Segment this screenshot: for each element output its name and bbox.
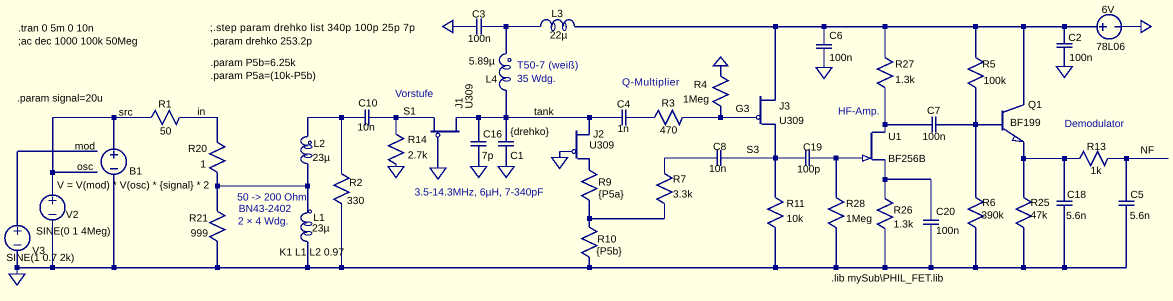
capacitor C18 [1056, 159, 1086, 268]
svg-text:R27: R27 [895, 60, 914, 71]
svg-text:999: 999 [191, 229, 209, 240]
svg-text:470: 470 [660, 126, 678, 137]
net label osc [77, 162, 93, 173]
svg-text:100n: 100n [1069, 53, 1092, 64]
svg-text:390k: 390k [981, 211, 1004, 222]
svg-text:23µ: 23µ [313, 153, 331, 164]
svg-text:1: 1 [200, 160, 206, 171]
inductor L4 [469, 27, 511, 118]
wire gnd to C3 [453, 26, 477, 28]
svg-text:S3: S3 [746, 145, 759, 156]
node B1 bottom junction [111, 265, 116, 270]
svg-text:Demodulator: Demodulator [1065, 119, 1125, 130]
node osc junction [50, 170, 55, 175]
svg-text:L4: L4 [486, 75, 498, 86]
wire V2 bottom [52, 220, 54, 268]
svg-text:Q1: Q1 [1028, 100, 1042, 111]
value V3 [6, 253, 74, 264]
wire mod [17, 151, 97, 225]
node C20 bottom junction [929, 265, 934, 270]
svg-text:src: src [119, 108, 133, 119]
node R9 bottom junction [587, 216, 592, 221]
node C1/L4 junction [504, 115, 509, 120]
wire B1 top [113, 118, 115, 150]
svg-text:2.7k: 2.7k [408, 151, 428, 162]
wire top rail [575, 26, 1098, 28]
capacitor C3 [468, 10, 491, 46]
svg-text:K1 L1 L2 0.97: K1 L1 L2 0.97 [279, 248, 344, 259]
directive .tran [18, 24, 94, 35]
wire R3 to G3 [682, 117, 756, 119]
wire R7 top to C8 [665, 157, 718, 159]
node R28 bottom junction [834, 265, 839, 270]
svg-text:R25: R25 [1031, 198, 1050, 209]
node C2 top junction [1062, 24, 1067, 29]
wire bottom rail [17, 267, 1126, 269]
svg-text:C5: C5 [1130, 190, 1144, 201]
svg-text:C1: C1 [510, 151, 524, 162]
resistor R6 [968, 125, 1004, 268]
svg-text:U309: U309 [464, 83, 475, 108]
capacitor C10 [357, 99, 377, 134]
inductor L3 [541, 9, 575, 42]
svg-text:S1: S1 [403, 107, 416, 118]
svg-text:R5: R5 [982, 60, 996, 71]
svg-text:3.3k: 3.3k [673, 190, 693, 201]
svg-text:SINE(0 1 4Meg): SINE(0 1 4Meg) [36, 227, 111, 238]
node R28 top junction [834, 156, 839, 161]
directive .param P5a [210, 71, 315, 82]
svg-text:C2: C2 [1068, 33, 1082, 44]
svg-text:in: in [197, 107, 205, 118]
resistor R26 [878, 179, 914, 267]
source 6V supply [1096, 5, 1125, 53]
svg-text:R6: R6 [982, 198, 996, 209]
net label G3 [736, 104, 750, 115]
directive K1 [279, 248, 344, 259]
svg-text:47k: 47k [1031, 211, 1049, 222]
transistor J1 [431, 83, 476, 168]
wire tank to C4 [589, 117, 622, 119]
wire osc riser [52, 118, 54, 173]
svg-text:.lib mySub\PHIL_FET.lib: .lib mySub\PHIL_FET.lib [831, 274, 943, 285]
node V3 bottom junction [15, 265, 20, 270]
node R10 bottom junction [587, 265, 592, 270]
svg-text:R11: R11 [787, 199, 806, 210]
svg-text:5.89µ: 5.89µ [469, 57, 495, 68]
node S3 junction [773, 156, 778, 161]
svg-text:78L06: 78L06 [1096, 42, 1125, 53]
svg-text:C4: C4 [617, 99, 631, 110]
wire J1 drain to C16 [456, 117, 589, 119]
svg-text:BF199: BF199 [1010, 118, 1041, 129]
resistor R20 [188, 142, 225, 186]
value B1 [57, 181, 209, 192]
svg-text:L2: L2 [314, 139, 326, 150]
transistor U1 [862, 125, 925, 180]
svg-text:100p: 100p [797, 165, 820, 176]
svg-text:L1: L1 [313, 213, 325, 224]
directive ;.step [210, 23, 415, 34]
wire osc [53, 171, 98, 173]
svg-text:Q-Multiplier: Q-Multiplier [622, 78, 680, 89]
ground flag up (R4) [714, 57, 728, 66]
node R2 top junction [339, 115, 344, 120]
svg-text:1.3k: 1.3k [895, 75, 915, 86]
resistor R5 [968, 27, 1007, 125]
wire S3 to C19 [775, 157, 805, 159]
net label tank [534, 107, 554, 118]
capacitor C16 [471, 118, 503, 167]
svg-text:100n: 100n [922, 132, 945, 143]
node U1 drain junction [883, 122, 888, 127]
ground flag right (6V) [1141, 21, 1151, 33]
ground flag C16 [471, 167, 487, 178]
capacitor C2 [1056, 27, 1092, 67]
directive ;ac [18, 37, 138, 48]
svg-text:HF-Amp.: HF-Amp. [838, 107, 880, 118]
ground flag bottom-left [9, 268, 25, 286]
node R2 bottom junction [339, 265, 344, 270]
svg-text:C16: C16 [483, 130, 502, 141]
wire R13 to NF [1108, 158, 1169, 160]
node C16 junction [476, 115, 481, 120]
svg-text:C8: C8 [713, 142, 727, 153]
wire src rail [53, 117, 151, 119]
node L1 bottom junction [305, 265, 310, 270]
node G3 junction [718, 115, 723, 120]
net label mod [75, 141, 95, 152]
node Q1 emitter junction [1021, 156, 1026, 161]
net label S1 [403, 107, 416, 118]
wire tap to transformer [217, 185, 307, 187]
wire C4 to R3 [626, 117, 655, 119]
net label S3 [746, 145, 759, 156]
svg-text:{drehko}: {drehko} [510, 127, 549, 138]
svg-text:Vorstufe: Vorstufe [395, 89, 433, 100]
directive .lib [831, 274, 943, 285]
svg-text:10n: 10n [357, 123, 375, 134]
ground flag left (C3) [443, 21, 453, 33]
capacitor C8 [709, 142, 727, 175]
svg-text:R14: R14 [408, 135, 427, 146]
svg-text:3.5-14.3MHz, 6µH, 7-340pF: 3.5-14.3MHz, 6µH, 7-340pF [415, 188, 544, 199]
node transformer tap junction [305, 184, 310, 189]
inductor L1 [301, 210, 330, 242]
capacitor C6 [816, 27, 853, 68]
svg-text:V = V(mod) * V(osc) * {signal}: V = V(mod) * V(osc) * {signal} * 2 [57, 181, 209, 192]
ground flag R14 [388, 167, 404, 178]
svg-text:1k: 1k [1091, 166, 1103, 177]
directive .param drehko [210, 36, 312, 47]
node R5 top junction [973, 24, 978, 29]
svg-text:SINE(1 0.7 2k): SINE(1 0.7 2k) [6, 253, 74, 264]
comment BN43-2402 [239, 204, 292, 215]
svg-text:G3: G3 [736, 104, 750, 115]
transistor Q1 [1002, 27, 1042, 159]
wire in row segment [308, 117, 366, 119]
capacitor C7 [922, 106, 945, 143]
node C6 top junction [822, 24, 827, 29]
svg-text:mod: mod [75, 141, 95, 152]
ground flag C6 [816, 68, 832, 79]
svg-text:R13: R13 [1087, 142, 1106, 153]
comment 35 Wdg [517, 74, 556, 85]
svg-text:C18: C18 [1067, 190, 1086, 201]
svg-text:100n: 100n [829, 53, 852, 64]
comment tuning range [415, 188, 544, 199]
svg-text:C20: C20 [936, 207, 955, 218]
node R26 bottom junction [883, 265, 888, 270]
wire L2 top [307, 118, 309, 137]
resistor R9 [582, 170, 624, 219]
svg-text:U309: U309 [589, 141, 614, 152]
capacitor C4 [617, 99, 631, 135]
svg-text:23µ: 23µ [312, 224, 330, 235]
svg-text:NF: NF [1140, 146, 1154, 157]
wire R9 to R7 [589, 204, 664, 219]
resistor R2 [334, 118, 364, 268]
svg-text:R9: R9 [598, 178, 612, 189]
ground flag J2 gate [552, 158, 568, 169]
svg-text:R7: R7 [673, 175, 687, 186]
wire 6V right [1121, 26, 1141, 28]
ground flag J1 [430, 168, 446, 179]
svg-text:J3: J3 [779, 102, 790, 113]
wire C8 to S3 [721, 157, 776, 159]
node C18 bottom junction [1062, 265, 1067, 270]
svg-text:R4: R4 [694, 80, 708, 91]
comment HF-Amp [838, 107, 880, 118]
source B1 [101, 149, 142, 177]
svg-text:.param signal=20u: .param signal=20u [17, 94, 103, 105]
node Q1 collector junction [1021, 24, 1026, 29]
resistor R4 [683, 66, 728, 118]
svg-text:50: 50 [160, 127, 172, 138]
resistor R10 [582, 219, 622, 268]
svg-text:C6: C6 [829, 31, 843, 42]
node R27 top junction [883, 24, 888, 29]
svg-text:R2: R2 [349, 178, 363, 189]
wire R1 to in corner [180, 118, 218, 143]
svg-text:R26: R26 [894, 206, 913, 217]
wire L1 bottom [307, 242, 309, 268]
node J2 drain junction [587, 115, 592, 120]
svg-text:tank: tank [534, 107, 554, 118]
net label in [197, 107, 205, 118]
svg-text:C19: C19 [803, 143, 822, 154]
svg-text:C7: C7 [927, 106, 941, 117]
resistor R14 [389, 118, 429, 167]
comment Demodulator [1065, 119, 1125, 130]
svg-text:;ac dec 1000 100k 50Meg: ;ac dec 1000 100k 50Meg [18, 37, 138, 48]
svg-text:100n: 100n [468, 34, 491, 45]
svg-text:10n: 10n [709, 164, 727, 175]
wire B1 bottom [113, 174, 115, 267]
svg-text:1Meg: 1Meg [683, 95, 709, 106]
value V2 [36, 227, 111, 238]
ground flag C1 [498, 167, 514, 178]
svg-text:6V: 6V [1102, 5, 1115, 16]
svg-text:.param drehko 253.2p: .param drehko 253.2p [210, 36, 312, 47]
resistor R13 [1080, 142, 1108, 177]
svg-text:U309: U309 [779, 116, 804, 127]
svg-text:10k: 10k [787, 214, 805, 225]
svg-text:5.6n: 5.6n [1130, 211, 1150, 222]
resistor R3 [654, 99, 682, 137]
svg-text:.tran 0 5m 0 10n: .tran 0 5m 0 10n [18, 24, 94, 35]
svg-text:B1: B1 [129, 167, 142, 178]
svg-text:100k: 100k [984, 76, 1007, 87]
wire V2 top [52, 172, 54, 195]
node U1 source junction [883, 177, 888, 182]
wire C7 row [885, 124, 976, 126]
svg-text:1Meg: 1Meg [846, 214, 872, 225]
svg-text:C3: C3 [472, 10, 486, 21]
transistor J3 [756, 27, 804, 159]
svg-text:;.step param drehko list 340p: ;.step param drehko list 340p 100p 25p 7… [210, 23, 415, 34]
svg-text:J2: J2 [593, 130, 604, 141]
svg-text:R10: R10 [597, 235, 616, 246]
svg-text:330: 330 [347, 196, 365, 207]
wire V3 bottom [16, 251, 18, 268]
svg-text:{P5b}: {P5b} [596, 247, 622, 258]
source V3 [5, 226, 45, 258]
svg-text:5.6n: 5.6n [1066, 211, 1086, 222]
comment Q-Multiplier [622, 78, 680, 89]
svg-text:R3: R3 [662, 99, 676, 110]
wire C19 to U1 gate [809, 157, 862, 159]
svg-text:1n: 1n [617, 124, 629, 135]
svg-text:7p: 7p [482, 151, 494, 162]
comment 2x4 Wdg [238, 217, 289, 228]
capacitor C19 [797, 143, 822, 176]
svg-text:T50-7 (weiß): T50-7 (weiß) [517, 61, 579, 72]
capacitor C5 [1118, 159, 1150, 268]
svg-text:2 × 4 Wdg.: 2 × 4 Wdg. [238, 217, 289, 228]
svg-text:.param P5b=6.25k: .param P5b=6.25k [210, 58, 296, 69]
wire emitter row [1024, 158, 1080, 160]
wire L2 bottom [307, 164, 309, 186]
svg-text:C10: C10 [358, 99, 377, 110]
svg-text:{P5a}: {P5a} [598, 189, 624, 200]
svg-text:100n: 100n [936, 226, 959, 237]
wire C10 to S1 [369, 117, 434, 119]
node R20/R21 tap junction [215, 184, 220, 189]
svg-text:1.3k: 1.3k [894, 220, 914, 231]
directive .param signal [17, 94, 103, 105]
net label NF [1140, 146, 1154, 157]
node NF junction [1124, 156, 1129, 161]
svg-text:22µ: 22µ [550, 31, 568, 42]
svg-text:osc: osc [77, 162, 93, 173]
svg-text:V2: V2 [66, 210, 79, 221]
resistor R27 [878, 27, 916, 125]
node R11 bottom junction [773, 265, 778, 270]
wire C3 to L3 [481, 26, 540, 28]
node R6 bottom junction [973, 265, 978, 270]
node R21 bottom junction [215, 265, 220, 270]
svg-text:BN43-2402: BN43-2402 [239, 204, 292, 215]
directive .param P5b [210, 58, 296, 69]
inductor L2 [301, 137, 330, 164]
source V2 [40, 195, 79, 221]
wire L1 top [307, 186, 309, 213]
node Q1 base junction [973, 122, 978, 127]
svg-text:L3: L3 [551, 9, 563, 20]
node R25 bottom junction [1021, 265, 1026, 270]
svg-text:R21: R21 [189, 214, 208, 225]
svg-text:U1: U1 [888, 132, 902, 143]
resistor R7 [657, 158, 693, 204]
comment 50 to 200 Ohm [237, 193, 307, 204]
wire Q1 base [976, 124, 1002, 126]
capacitor C20 [923, 179, 959, 267]
node S1 junction [394, 115, 399, 120]
wire U1 source to C20 [885, 178, 931, 180]
svg-text:R28: R28 [846, 199, 865, 210]
resistor R28 [829, 158, 873, 268]
svg-text:R20: R20 [188, 144, 207, 155]
capacitor C1 [498, 118, 549, 167]
svg-text:.param P5a=(10k-P5b): .param P5a=(10k-P5b) [210, 71, 315, 82]
transistor J2 [560, 118, 615, 171]
resistor R21 [189, 186, 225, 268]
node J3 top junction [773, 24, 778, 29]
ground flag C2 [1056, 67, 1072, 78]
comment T50-7 [517, 61, 579, 72]
svg-text:R1: R1 [158, 100, 172, 111]
svg-text:BF256B: BF256B [888, 154, 926, 165]
node src junction [111, 115, 116, 120]
svg-text:35 Wdg.: 35 Wdg. [517, 74, 556, 85]
svg-text:50 -> 200 Ohm: 50 -> 200 Ohm [237, 193, 307, 204]
comment Vorstufe [395, 89, 433, 100]
resistor R11 [768, 158, 805, 268]
net label src [119, 108, 133, 119]
resistor R1 [151, 100, 179, 138]
node L4 top junction [504, 24, 509, 29]
node V2 bottom junction [50, 265, 55, 270]
resistor R25 [1016, 159, 1050, 268]
node C18 top junction [1062, 156, 1067, 161]
